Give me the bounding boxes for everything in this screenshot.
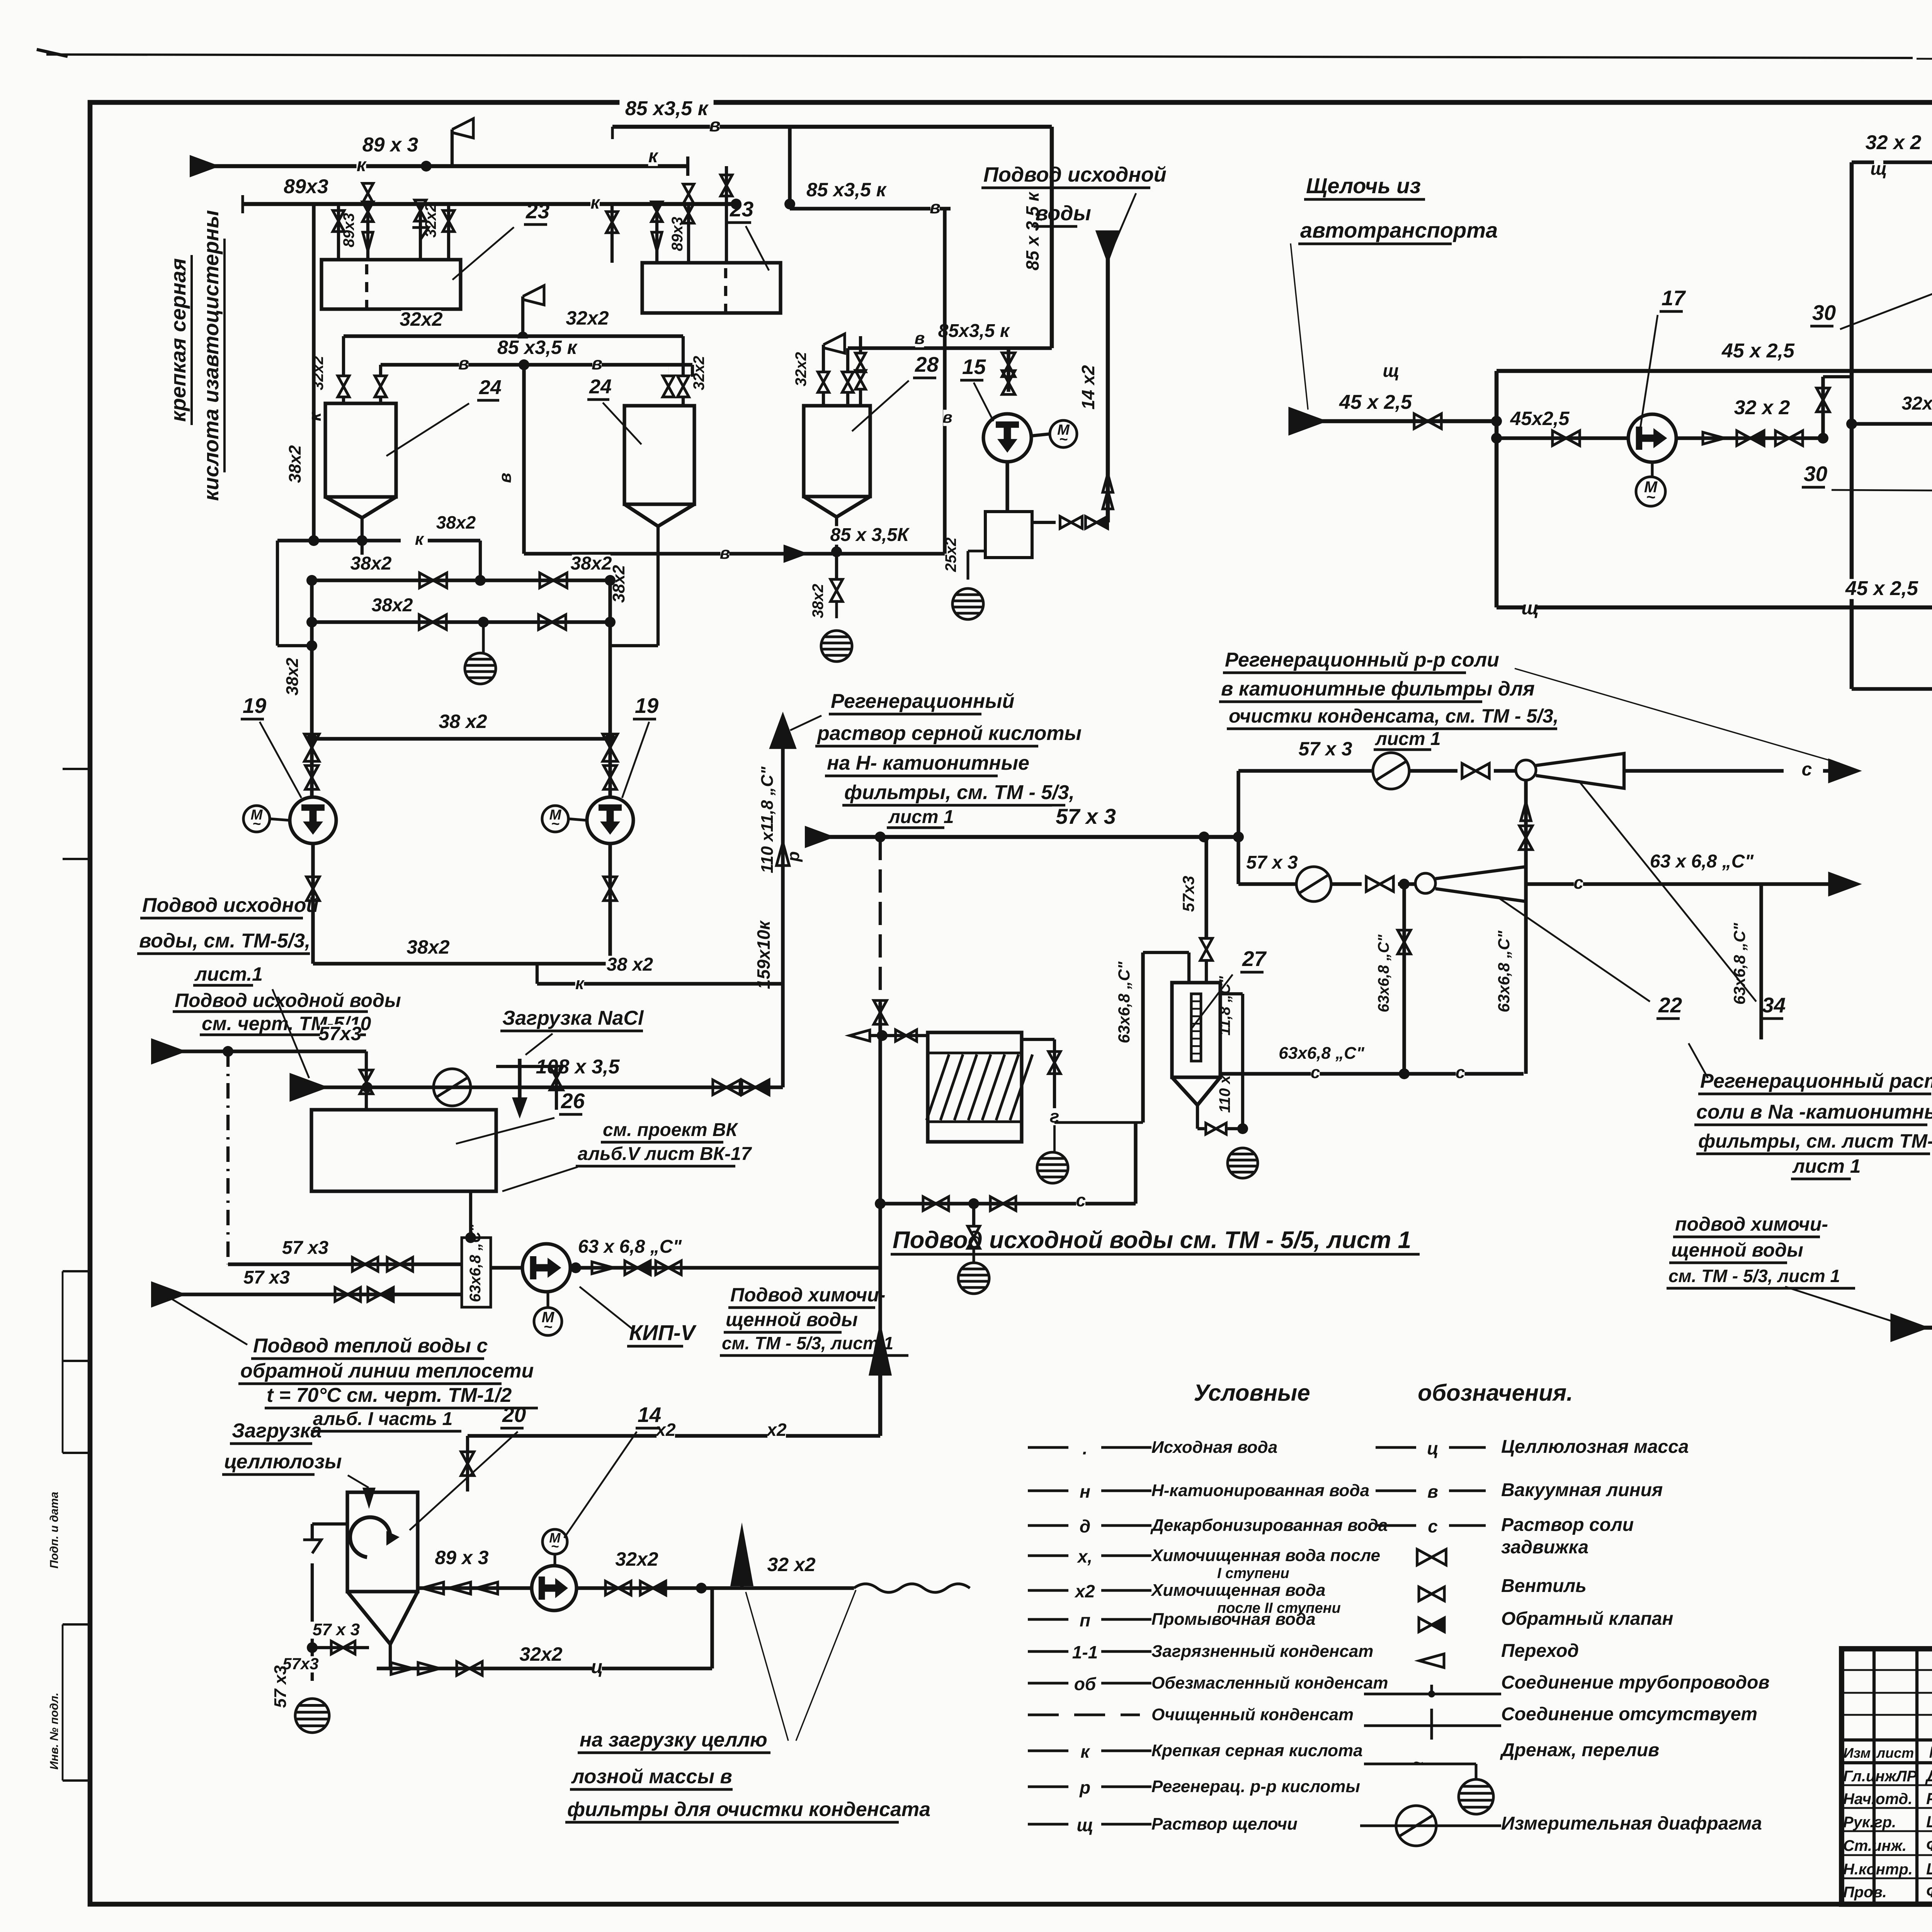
svg-text:~: ~ — [252, 816, 261, 832]
svg-text:38х2: 38х2 — [350, 553, 392, 574]
svg-text:х2: х2 — [1074, 1581, 1095, 1601]
svg-text:целлюлозы: целлюлозы — [224, 1451, 342, 1473]
svg-text:КИП-V: КИП-V — [629, 1320, 697, 1345]
svg-text:32х2: 32х2 — [615, 1548, 658, 1570]
svg-text:~: ~ — [551, 816, 560, 832]
svg-text:.: . — [1083, 1438, 1088, 1458]
svg-text:Регенерационный р-р соли: Регенерационный р-р соли — [1225, 649, 1499, 671]
svg-text:38х2: 38х2 — [286, 445, 304, 483]
svg-text:соли в Nа -катионитные: соли в Nа -катионитные — [1696, 1101, 1932, 1123]
svg-text:Исходная вода: Исходная вода — [1151, 1438, 1277, 1457]
svg-text:н: н — [1080, 1481, 1090, 1502]
svg-text:Раствор соли: Раствор соли — [1501, 1515, 1634, 1535]
svg-text:фильтры, см. лист ТМ-5/3: фильтры, см. лист ТМ-5/3 — [1698, 1130, 1932, 1152]
svg-text:32х2: 32х2 — [566, 307, 609, 329]
svg-text:45 х 2,5: 45 х 2,5 — [1721, 340, 1795, 362]
svg-text:57 х 3: 57 х 3 — [313, 1620, 360, 1639]
svg-text:№ докум.: № докум. — [1929, 1743, 1932, 1761]
svg-text:щ: щ — [1522, 598, 1539, 619]
svg-text:89х3: 89х3 — [669, 217, 686, 251]
svg-text:Регенерационный раствор: Регенерационный раствор — [1700, 1070, 1932, 1092]
svg-text:14 х2: 14 х2 — [1078, 365, 1098, 410]
svg-text:32х2: 32х2 — [793, 352, 810, 386]
svg-text:Пров.: Пров. — [1843, 1884, 1887, 1901]
svg-text:к: к — [648, 146, 659, 167]
svg-text:I ступени: I ступени — [1217, 1565, 1289, 1582]
svg-text:63х6,8 „С": 63х6,8 „С" — [467, 1224, 484, 1302]
svg-text:х2: х2 — [765, 1420, 787, 1440]
svg-text:26: 26 — [561, 1089, 585, 1113]
svg-text:ц: ц — [591, 1657, 603, 1677]
svg-text:89 х 3: 89 х 3 — [362, 134, 418, 156]
svg-text:ц: ц — [1427, 1438, 1439, 1458]
svg-text:45х2,5: 45х2,5 — [1510, 408, 1570, 429]
svg-text:~: ~ — [551, 1539, 559, 1554]
svg-text:Изм: Изм — [1844, 1745, 1871, 1761]
svg-text:Думан: Думан — [1925, 1767, 1932, 1785]
svg-text:с: с — [1076, 1190, 1086, 1210]
svg-text:раствор серной кислоты: раствор серной кислоты — [816, 722, 1082, 745]
svg-text:п: п — [1080, 1610, 1090, 1630]
svg-text:в: в — [496, 473, 515, 483]
svg-text:фильтры для очистки конденс: фильтры для очистки конденсата — [567, 1798, 930, 1821]
svg-text:р: р — [784, 851, 803, 862]
svg-text:Загрузка: Загрузка — [232, 1420, 322, 1442]
svg-text:~: ~ — [1059, 431, 1068, 447]
svg-text:~: ~ — [1413, 1753, 1423, 1772]
svg-text:57 х 3: 57 х 3 — [1056, 804, 1116, 828]
svg-text:28: 28 — [915, 352, 939, 376]
svg-text:с: с — [1456, 1063, 1465, 1082]
svg-text:27: 27 — [1242, 947, 1267, 971]
svg-text:Дренаж, перелив: Дренаж, перелив — [1500, 1740, 1659, 1760]
svg-text:Ст.инж.: Ст.инж. — [1843, 1837, 1906, 1854]
svg-text:89х3: 89х3 — [340, 213, 357, 247]
svg-text:Гл.инжЛР: Гл.инжЛР — [1843, 1768, 1917, 1785]
svg-text:в: в — [930, 197, 940, 217]
svg-text:38х2: 38х2 — [436, 512, 476, 532]
svg-text:к: к — [575, 974, 585, 993]
svg-text:63 х 6,8 „С": 63 х 6,8 „С" — [578, 1236, 682, 1257]
svg-text:45 х 2,5: 45 х 2,5 — [1339, 391, 1412, 413]
svg-text:щенной воды: щенной воды — [726, 1309, 858, 1330]
svg-text:с: с — [1802, 759, 1812, 780]
svg-text:в: в — [592, 353, 602, 373]
svg-text:110 х11,8 „С": 110 х11,8 „С" — [758, 766, 777, 873]
svg-text:см. ТМ - 5/3, лист 1: см. ТМ - 5/3, лист 1 — [1668, 1266, 1840, 1286]
svg-text:85 х3,5 к: 85 х3,5 к — [625, 97, 709, 120]
svg-text:щ: щ — [1383, 361, 1399, 381]
svg-text:Н-катионированная вода: Н-катионированная вода — [1151, 1481, 1369, 1500]
svg-text:24: 24 — [589, 376, 612, 398]
svg-text:Н.контр.: Н.контр. — [1843, 1861, 1913, 1878]
svg-text:63х6,8 „С": 63х6,8 „С" — [1730, 923, 1748, 1005]
svg-text:подвод химочи-: подвод химочи- — [1675, 1213, 1828, 1235]
svg-text:85 х3,5 к: 85 х3,5 к — [806, 179, 887, 201]
svg-text:Загрязненный конденсат: Загрязненный конденсат — [1151, 1642, 1373, 1661]
svg-text:~: ~ — [1646, 488, 1655, 506]
svg-text:в: в — [720, 544, 730, 563]
svg-text:Рубинс: Рубинс — [1926, 1789, 1932, 1808]
svg-text:Регенерац. р-р кислоты: Регенерац. р-р кислоты — [1151, 1777, 1360, 1796]
svg-text:Очищенный конденсат: Очищенный конденсат — [1151, 1705, 1354, 1724]
svg-text:см. проект ВК: см. проект ВК — [603, 1120, 739, 1140]
svg-text:17: 17 — [1662, 286, 1686, 310]
svg-text:Промывочная вода: Промывочная вода — [1151, 1610, 1316, 1629]
svg-text:х,: х, — [1077, 1546, 1092, 1566]
svg-text:32х2: 32х2 — [1902, 393, 1932, 414]
svg-text:89 х 3: 89 х 3 — [435, 1547, 488, 1568]
svg-text:обратной линии теплосети: обратной линии теплосети — [240, 1360, 534, 1382]
svg-text:Раствор щелочи: Раствор щелочи — [1151, 1815, 1298, 1833]
svg-text:Крепкая серная кислота: Крепкая серная кислота — [1151, 1741, 1363, 1760]
svg-text:23: 23 — [526, 199, 549, 223]
svg-text:Подп. и дата: Подп. и дата — [48, 1492, 61, 1569]
svg-text:к: к — [590, 192, 600, 213]
svg-text:38х2: 38х2 — [609, 565, 628, 603]
svg-text:в: в — [458, 353, 469, 373]
svg-text:автотранспорта: автотранспорта — [1300, 218, 1498, 242]
svg-text:крепкая серная: крепкая серная — [166, 258, 190, 422]
svg-text:22: 22 — [1658, 993, 1682, 1017]
svg-text:Соединение отсутствует: Соединение отсутствует — [1501, 1704, 1757, 1725]
svg-text:лист 1: лист 1 — [1375, 729, 1441, 749]
svg-text:щ: щ — [1077, 1815, 1093, 1835]
svg-text:р: р — [1079, 1777, 1090, 1798]
svg-text:Обратный клапан: Обратный клапан — [1501, 1609, 1673, 1629]
svg-text:110 х: 110 х — [1216, 1075, 1233, 1113]
svg-text:Нач.отд.: Нач.отд. — [1843, 1791, 1912, 1808]
svg-text:32 х 2: 32 х 2 — [1734, 396, 1790, 419]
svg-text:Химочищенная вода после: Химочищенная вода после — [1150, 1546, 1380, 1565]
svg-text:к: к — [1080, 1742, 1090, 1762]
svg-text:85 х 3,5К: 85 х 3,5К — [830, 525, 910, 545]
svg-text:11,8 „С": 11,8 „С" — [1216, 976, 1233, 1036]
svg-text:63х6,8 „С": 63х6,8 „С" — [1115, 961, 1133, 1043]
svg-text:в: в — [942, 408, 952, 426]
svg-text:19: 19 — [635, 694, 659, 718]
svg-text:57 х3: 57 х3 — [282, 1238, 328, 1258]
svg-text:на Н- катионитные: на Н- катионитные — [827, 752, 1029, 774]
svg-text:Регенерационный: Регенерационный — [831, 690, 1014, 713]
svg-text:в: в — [915, 329, 925, 348]
svg-text:20: 20 — [502, 1403, 526, 1427]
svg-text:Обезмасленный конденсат: Обезмасленный конденсат — [1151, 1673, 1388, 1692]
svg-text:с: с — [1428, 1516, 1438, 1536]
svg-text:Инв. № подл.: Инв. № подл. — [48, 1692, 61, 1769]
svg-text:Переход: Переход — [1501, 1641, 1579, 1661]
svg-text:85х3,5 к: 85х3,5 к — [938, 321, 1010, 341]
svg-text:д: д — [1080, 1516, 1090, 1536]
svg-text:с: с — [1573, 872, 1583, 893]
svg-text:Загрузка NаCl: Загрузка NаCl — [502, 1007, 644, 1029]
svg-text:воды: воды — [1036, 202, 1091, 225]
svg-text:30: 30 — [1804, 462, 1828, 486]
svg-text:63х6,8 „С": 63х6,8 „С" — [1375, 934, 1392, 1012]
svg-text:лист.1: лист.1 — [194, 963, 263, 985]
svg-text:57 х 3: 57 х 3 — [1246, 852, 1298, 873]
svg-text:лист: лист — [1876, 1745, 1914, 1761]
svg-text:38х2: 38х2 — [283, 658, 302, 696]
svg-text:38х2: 38х2 — [372, 595, 413, 616]
svg-text:Условные: Условные — [1194, 1380, 1310, 1406]
svg-text:1-1: 1-1 — [1072, 1642, 1098, 1662]
svg-text:лист 1: лист 1 — [888, 807, 954, 827]
svg-text:57х3: 57х3 — [318, 1023, 361, 1044]
svg-text:альб. I часть 1: альб. I часть 1 — [313, 1409, 452, 1429]
svg-text:19: 19 — [243, 694, 267, 718]
svg-text:Подвод исходной: Подвод исходной — [142, 894, 318, 917]
svg-text:кислота изавтоцистерны: кислота изавтоцистерны — [199, 210, 223, 501]
svg-text:щенной воды: щенной воды — [1671, 1239, 1803, 1261]
svg-text:45 х 2,5: 45 х 2,5 — [1845, 577, 1918, 600]
svg-text:лозной массы в: лозной массы в — [571, 1765, 732, 1788]
svg-text:Целлюлозная масса: Целлюлозная масса — [1501, 1437, 1689, 1457]
svg-text:63 х 6,8 „С": 63 х 6,8 „С" — [1650, 851, 1754, 872]
svg-text:32х2: 32х2 — [422, 203, 439, 238]
svg-text:32 х2: 32 х2 — [767, 1554, 815, 1575]
svg-text:15: 15 — [962, 355, 986, 379]
svg-text:30: 30 — [1812, 301, 1836, 325]
svg-text:к: к — [415, 530, 425, 549]
svg-text:очистки конденсата, см. ТМ -: очистки конденсата, см. ТМ - 5/3, — [1229, 705, 1559, 727]
svg-text:89х3: 89х3 — [284, 175, 328, 198]
svg-text:Подвод исходной: Подвод исходной — [983, 163, 1167, 186]
svg-text:альб.V лист ВК-17: альб.V лист ВК-17 — [578, 1144, 752, 1164]
svg-text:32х2: 32х2 — [400, 308, 442, 330]
svg-text:Подвод химочи-: Подвод химочи- — [730, 1284, 885, 1306]
svg-text:Щелочь из: Щелочь из — [1306, 173, 1421, 198]
svg-text:32х2: 32х2 — [519, 1643, 562, 1665]
svg-text:Вентиль: Вентиль — [1501, 1576, 1587, 1596]
svg-text:57 х 3: 57 х 3 — [1298, 738, 1352, 760]
svg-text:Филипова: Филипова — [1926, 1883, 1932, 1901]
svg-text:38х2: 38х2 — [571, 553, 612, 574]
svg-text:32х2: 32х2 — [690, 356, 707, 390]
svg-text:63х6,8 „С": 63х6,8 „С" — [1279, 1044, 1365, 1063]
svg-text:Химочищенная вода: Химочищенная вода — [1150, 1581, 1325, 1600]
svg-text:159х10к: 159х10к — [753, 920, 774, 989]
svg-text:38х2: 38х2 — [810, 584, 827, 618]
svg-text:38 х2: 38 х2 — [439, 711, 487, 732]
svg-text:34: 34 — [1762, 993, 1786, 1017]
svg-text:воды, см. ТМ-5/3,: воды, см. ТМ-5/3, — [139, 930, 310, 952]
svg-text:Филипова: Филипова — [1926, 1836, 1932, 1854]
svg-text:Шкене: Шкене — [1926, 1860, 1932, 1878]
svg-text:на загрузку целлю: на загрузку целлю — [580, 1729, 767, 1751]
svg-text:38х2: 38х2 — [406, 936, 449, 958]
svg-text:Вакуумная линия: Вакуумная линия — [1501, 1480, 1663, 1500]
svg-text:Декарбонизированная вода: Декарбонизированная вода — [1150, 1516, 1388, 1535]
svg-text:к: к — [357, 155, 367, 175]
svg-text:24: 24 — [479, 376, 502, 399]
svg-text:см. ТМ - 5/3, лист 1: см. ТМ - 5/3, лист 1 — [722, 1333, 893, 1353]
svg-text:t = 70°С см. черт. ТМ-1/2: t = 70°С см. черт. ТМ-1/2 — [267, 1384, 512, 1406]
svg-text:Рук.гр.: Рук.гр. — [1843, 1814, 1896, 1831]
svg-text:85 х3,5 к: 85 х3,5 к — [497, 337, 578, 358]
svg-text:в катионитные фильтры для: в катионитные фильтры для — [1221, 678, 1535, 700]
svg-text:щ: щ — [1870, 158, 1887, 179]
svg-text:с: с — [1311, 1063, 1320, 1082]
svg-text:63х6,8 „С": 63х6,8 „С" — [1495, 930, 1513, 1012]
svg-text:в: в — [709, 115, 721, 136]
svg-text:Подвод исходной воды: Подвод исходной воды — [175, 990, 401, 1011]
svg-text:к: к — [306, 412, 325, 421]
svg-text:38 х2: 38 х2 — [607, 954, 653, 975]
svg-text:в: в — [1427, 1481, 1438, 1502]
svg-text:Подвод исходной воды см. ТМ: Подвод исходной воды см. ТМ - 5/5, лист … — [893, 1227, 1411, 1253]
svg-text:57 х3: 57 х3 — [271, 1665, 290, 1708]
svg-text:задвижка: задвижка — [1501, 1537, 1588, 1558]
svg-text:~: ~ — [544, 1319, 553, 1335]
svg-text:57х3: 57х3 — [1179, 876, 1197, 912]
svg-text:32 х 2: 32 х 2 — [1866, 131, 1922, 154]
svg-text:Измерительная диафрагма: Измерительная диафрагма — [1501, 1813, 1762, 1834]
svg-text:фильтры, см. ТМ - 5/3,: фильтры, см. ТМ - 5/3, — [844, 781, 1075, 804]
svg-text:Шкене: Шкене — [1926, 1813, 1932, 1831]
svg-text:лист 1: лист 1 — [1792, 1155, 1861, 1177]
svg-text:57 х3: 57 х3 — [243, 1267, 290, 1288]
svg-text:14: 14 — [638, 1403, 661, 1427]
svg-text:об: об — [1074, 1674, 1097, 1694]
svg-text:обозначения.: обозначения. — [1418, 1380, 1573, 1406]
svg-text:Соединение трубопроводов: Соединение трубопроводов — [1501, 1672, 1769, 1693]
svg-text:Подвод теплой воды с: Подвод теплой воды с — [253, 1335, 488, 1357]
